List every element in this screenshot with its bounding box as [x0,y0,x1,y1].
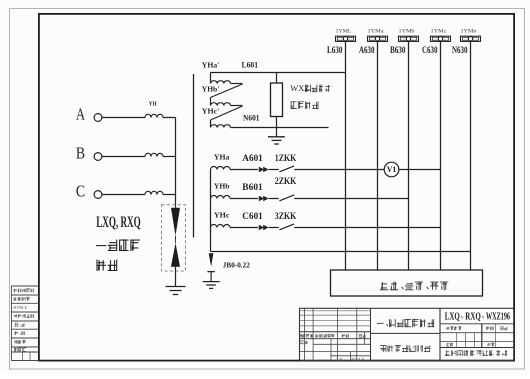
svg-text:YHc': YHc' [202,107,220,116]
svg-text:L601: L601 [242,59,259,69]
winding YHc (secondary star phase) [211,225,231,228]
wire N601 to ground [276,128,278,137]
winding YHb' (open delta b) [211,103,231,106]
winding YHa' (open delta a) [211,73,231,84]
arrester element gap wire [175,236,177,243]
fuse terminal block A630 [368,36,388,41]
wire zigzag a-b [211,84,243,106]
connection chevron on A601 [259,167,269,173]
svg-text:1YMa: 1YMa [368,28,385,34]
svg-text:B601: B601 [242,182,263,192]
svg-text:C601: C601 [242,211,263,221]
label 消谐装置 [291,101,319,109]
wire riser N630 [470,42,472,271]
svg-text:B630: B630 [390,46,406,56]
svg-text:2014.5: 2014.5 [351,357,365,362]
svg-text:YHb: YHb [214,182,230,191]
wire phase A coil to star point bus [163,117,176,119]
ground (below WXZ) [268,137,285,144]
winding YH primary phase A [145,114,163,117]
svg-text:1YMc: 1YMc [431,28,448,34]
svg-text:L630: L630 [327,46,343,56]
connection chevron on B601 [259,196,269,202]
svg-text:1ZKK: 1ZKK [275,153,297,163]
svg-text:JB0-0.22: JB0-0.22 [223,261,251,269]
switch 2ZKK (knife switch blade) [280,195,295,201]
svg-text:LXQ, RXQ: LXQ, RXQ [96,214,141,231]
wire phase B coil to star point bus [163,156,176,158]
svg-text:HVBLE: HVBLE [13,305,27,310]
label 装置 [96,260,117,271]
svg-text:A630: A630 [359,46,375,56]
breakdown fuse JB0-0.22 arrow [209,253,214,267]
svg-text:YH: YH [149,101,157,108]
ground (below JB0) [203,282,220,289]
block: protection / metering / measurement [331,270,483,296]
wire C601 to switch 3ZKK [269,227,279,229]
svg-text:YHb': YHb' [202,85,220,94]
title: 一、二次消谐装置 [377,319,434,327]
wire phase A to YH primary [102,117,145,119]
title block grid [300,308,515,360]
winding YHa (secondary star phase) [211,167,231,170]
transformer core separator line [193,74,195,238]
wire riser B630 [408,42,410,271]
wire phase B to YH primary [102,156,145,158]
title: 安装位置示意图 [380,345,430,352]
svg-text:RXQ: RXQ [465,310,481,322]
harmonic eliminator LXQ/RXQ dashed enclosure [162,205,186,271]
wire riser L630 [345,42,347,271]
wire C601 [230,227,258,229]
svg-text:1YML: 1YML [336,28,353,34]
node C (phase C input terminal) [76,182,102,201]
title: company name 保定永峰电气有限公司 [445,350,507,356]
svg-text:V1: V1 [387,165,397,174]
wire A601 to switch 1ZKK [269,169,279,171]
title: LXQ、RXQ、WXZ196 [445,310,510,322]
wire riser A630 [377,42,379,271]
resistor WXZ (secondary micro-computer harmonic eliminator) [271,83,283,117]
wire B601 to switch 2ZKK [269,198,279,200]
title-block: left margin revision table [11,286,39,361]
label 保护、计量、测量 [380,281,448,290]
wire L601 (open-delta output) [211,72,346,74]
wire phase C coil to star point bus [163,194,176,196]
wire 3ZKK output [294,227,440,229]
svg-text:B: B [76,144,85,163]
fuse terminal block B630 [399,36,419,41]
svg-text:C: C [76,182,85,201]
winding YHb (secondary star phase) [211,196,231,199]
svg-text:LXQ: LXQ [445,310,460,322]
ground (below LXQ) [166,287,186,295]
fuse terminal block L630 [336,36,356,41]
label WXZ二次微机 [290,83,330,93]
node B (phase B input terminal) [76,144,102,163]
breakdown fuse gap electrode [207,272,214,282]
svg-text:1 8: 1 8 [336,357,343,362]
wire V1 to C630 riser [399,169,441,171]
switch 3ZKK (knife switch blade) [280,224,295,230]
fuse terminal block N630 [461,36,481,41]
wire phase C to YH primary [102,194,145,196]
winding YHc' (open delta c) [211,125,231,128]
winding YH primary phase B [145,153,163,156]
wire 1ZKK output [294,169,384,171]
connection chevron on C601 [259,225,269,231]
svg-text:1YMb: 1YMb [399,28,415,34]
label 一次消谐 [96,239,140,251]
svg-text:YHa: YHa [214,152,230,161]
svg-text:A: A [76,105,86,124]
arrester element upper (triangle down) [171,208,180,236]
title block tiny row texts [299,326,508,362]
svg-text:YHa': YHa' [202,60,220,69]
arrester element lower (triangle up) [171,243,180,267]
node A (phase A input terminal) [76,105,102,124]
svg-text:1YMn: 1YMn [461,28,477,34]
wire N601 (open-delta return) [231,127,329,129]
svg-text:YHc: YHc [214,211,230,220]
switch 1ZKK (knife switch blade) [280,166,295,172]
wire LXQ to ground [175,267,177,287]
voltmeter V1 [384,162,399,177]
wire primary star-point bus [175,118,177,208]
winding YH primary phase C [145,191,163,194]
svg-text:N630: N630 [452,46,468,56]
wire riser C630 [440,42,442,271]
wire WXZ to N601 [276,117,278,128]
svg-text:N601: N601 [243,112,260,122]
wire 2ZKK output [294,198,408,200]
svg-text:WXZ196: WXZ196 [486,310,510,322]
wire secondary neutral N600 [211,251,471,253]
svg-text:A601: A601 [242,153,263,163]
svg-text:2ZKK: 2ZKK [275,176,297,186]
svg-text:C630: C630 [422,46,438,56]
wire secondary star-point vertical [210,170,212,252]
svg-text:3ZKK: 3ZKK [275,211,297,221]
fuse terminal block C630 [431,36,451,41]
wire B601 [230,198,258,200]
wire A601 [230,169,258,171]
wire zigzag b-c [211,106,243,128]
wire L601 tap to WXZ device [276,73,278,84]
